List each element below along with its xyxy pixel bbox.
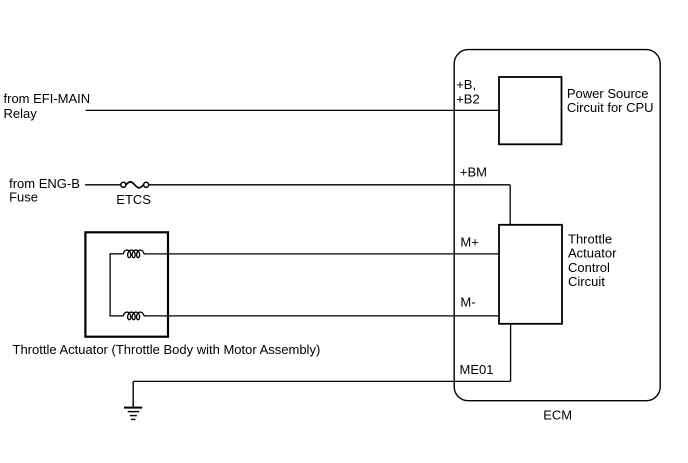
svg-text:from EFI-MAIN: from EFI-MAIN <box>4 91 91 106</box>
svg-text:Actuator: Actuator <box>568 246 617 261</box>
wire down to ground <box>132 381 134 407</box>
svg-text:Throttle Actuator (Throttle Bo: Throttle Actuator (Throttle Body with Mo… <box>13 342 321 357</box>
svg-text:ECM: ECM <box>543 407 572 422</box>
motor winding L1 (upper coil) <box>123 250 144 258</box>
wire M+ from upper coil to control circuit <box>144 253 499 255</box>
wire ME01 horizontal to ground <box>133 380 510 382</box>
wire from ENG-B Fuse to fuse symbol <box>85 184 121 186</box>
wire M- from lower coil to control circuit <box>144 315 499 317</box>
Throttle Actuator enclosure box <box>85 232 168 336</box>
svg-text:ME01: ME01 <box>460 362 494 377</box>
svg-text:Circuit: Circuit <box>568 274 605 289</box>
svg-text:Circuit for CPU: Circuit for CPU <box>567 100 654 115</box>
wire coil left stub lower <box>110 315 124 317</box>
ECM enclosure box <box>454 50 660 401</box>
svg-text:Power Source: Power Source <box>567 86 649 101</box>
svg-text:+B2: +B2 <box>456 91 480 106</box>
wire coil left stub upper <box>110 253 124 255</box>
wire fuse to +BM pin <box>149 184 511 186</box>
svg-text:+B,: +B, <box>456 77 476 92</box>
svg-text:Throttle: Throttle <box>568 231 612 246</box>
ground <box>124 407 142 421</box>
wire ME01 vertical to control circuit bottom <box>510 324 512 382</box>
motor winding L2 (lower coil) <box>123 312 144 320</box>
svg-text:Fuse: Fuse <box>9 190 38 205</box>
Power Source Circuit for CPU block U1 <box>499 77 562 144</box>
wire +BM down to Throttle Actuator Control Circuit <box>509 185 511 225</box>
svg-text:ETCS: ETCS <box>116 192 151 207</box>
svg-text:M-: M- <box>460 294 475 309</box>
svg-text:Relay: Relay <box>4 106 38 121</box>
Throttle Actuator Control Circuit block U2 <box>499 225 562 324</box>
wire from EFI-MAIN Relay to Power Source box <box>86 109 499 111</box>
fuse ETCS <box>121 182 126 187</box>
svg-text:Control: Control <box>568 260 610 275</box>
svg-text:M+: M+ <box>460 234 478 249</box>
wire joining coil left sides <box>109 253 111 316</box>
svg-text:+BM: +BM <box>460 164 487 179</box>
